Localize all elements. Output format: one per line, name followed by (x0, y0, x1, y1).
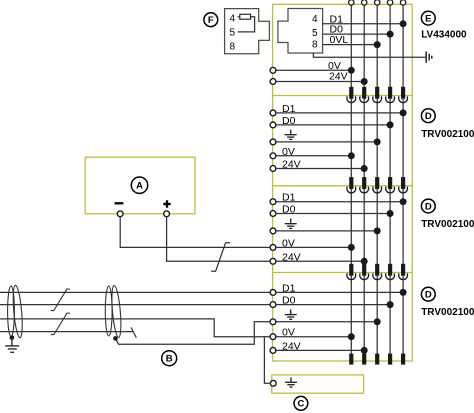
svg-text:4: 4 (312, 14, 318, 25)
svg-text:0VL: 0VL (330, 34, 349, 46)
svg-text:TRV002100: TRV002100 (421, 219, 474, 230)
svg-text:E: E (425, 14, 431, 25)
svg-text:TRV002100: TRV002100 (421, 307, 474, 318)
svg-text:24V: 24V (282, 251, 301, 263)
svg-text:0V: 0V (282, 237, 295, 249)
svg-text:TRV002100: TRV002100 (421, 129, 474, 140)
svg-text:D0: D0 (282, 295, 296, 307)
svg-text:C: C (297, 399, 304, 410)
svg-text:D: D (425, 111, 432, 122)
svg-text:B: B (166, 354, 173, 365)
svg-text:8: 8 (312, 39, 318, 50)
svg-text:24V: 24V (282, 159, 301, 171)
svg-text:D1: D1 (282, 103, 296, 115)
svg-text:0V: 0V (282, 327, 295, 339)
svg-text:4: 4 (230, 14, 236, 25)
svg-text:A: A (136, 181, 143, 192)
svg-text:D0: D0 (282, 204, 296, 216)
svg-text:24V: 24V (282, 340, 301, 352)
svg-text:24V: 24V (329, 70, 348, 82)
svg-text:D: D (425, 290, 432, 301)
svg-text:5: 5 (230, 28, 236, 39)
svg-text:0V: 0V (282, 146, 295, 158)
svg-text:D1: D1 (282, 192, 296, 204)
svg-text:D0: D0 (282, 115, 296, 127)
svg-text:D1: D1 (282, 282, 296, 294)
svg-text:8: 8 (230, 41, 236, 52)
svg-text:F: F (208, 15, 214, 26)
svg-text:D: D (425, 201, 432, 212)
svg-text:LV434000: LV434000 (421, 30, 467, 41)
svg-text:5: 5 (312, 28, 318, 39)
